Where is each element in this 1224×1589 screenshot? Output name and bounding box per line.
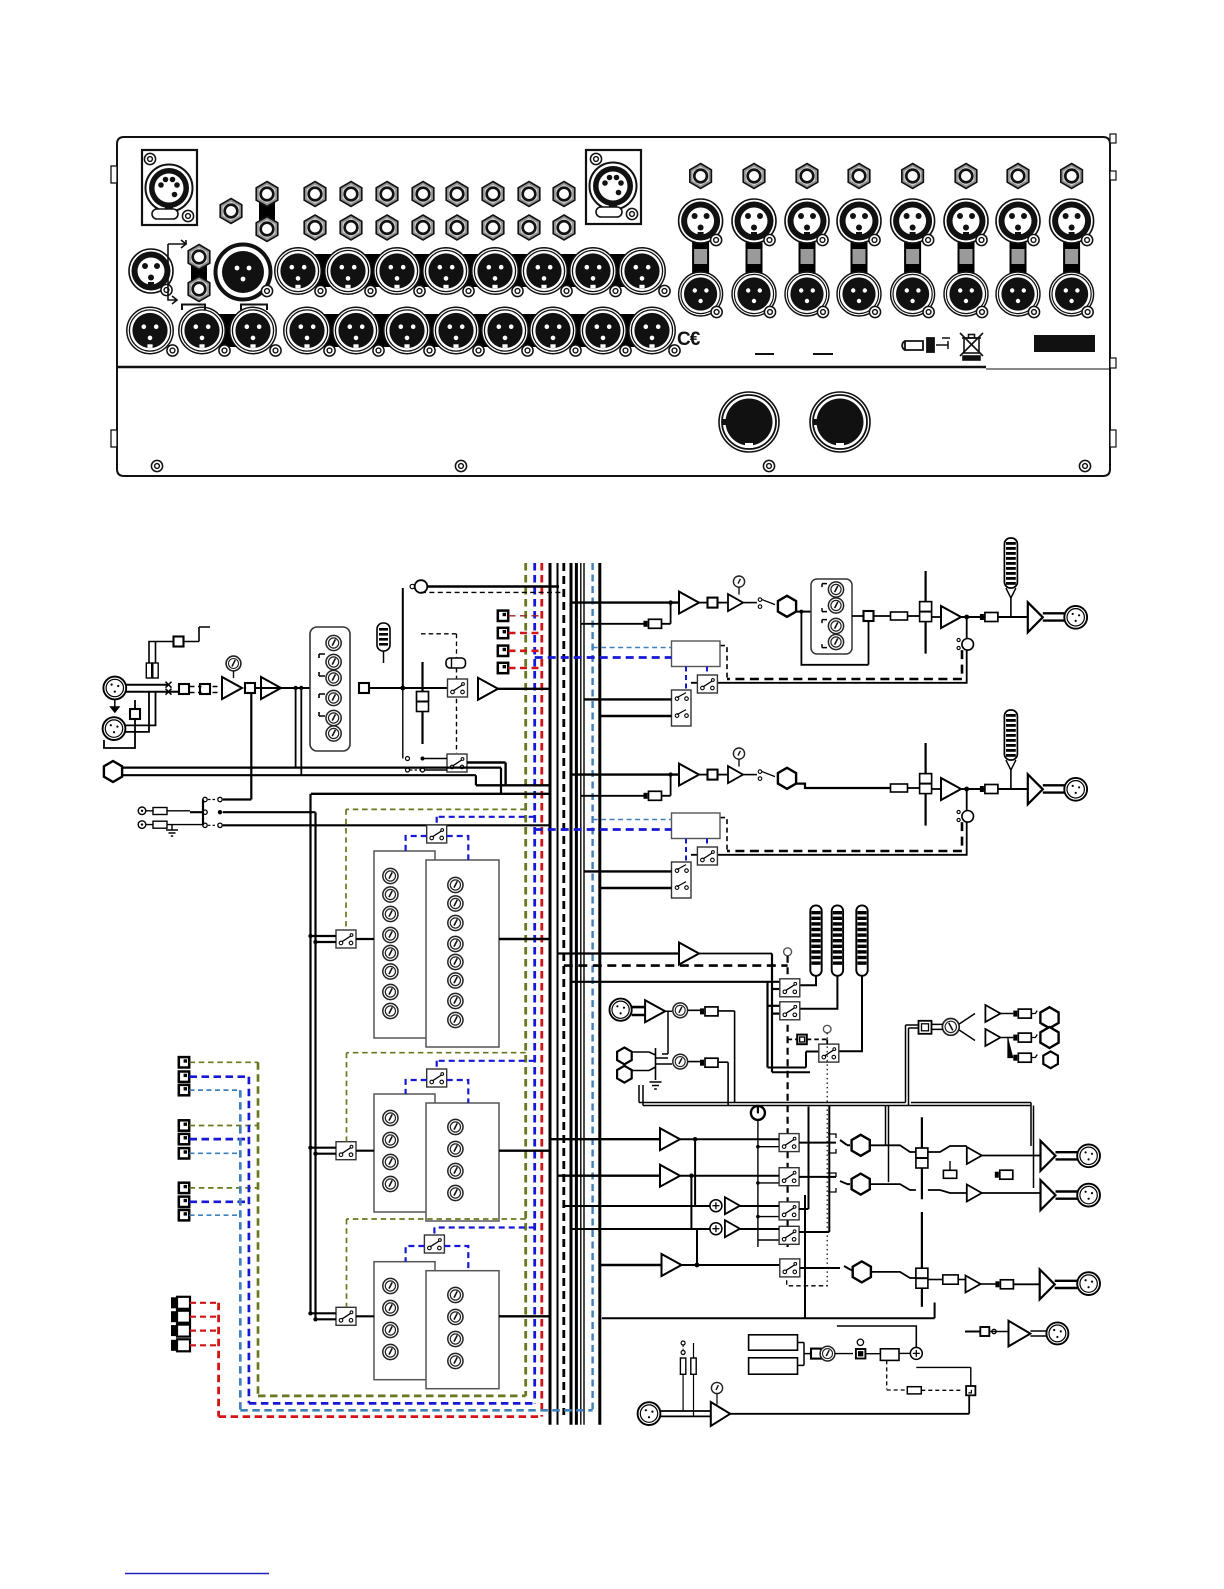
jack hex col2 top (340, 182, 362, 207)
mono out wire (682, 1229, 780, 1267)
aux1 blue drop B (706, 667, 708, 676)
channel amp 2 (261, 677, 281, 699)
loop steel bottom (240, 1409, 592, 1412)
panel right ear tab bottom (1110, 430, 1116, 447)
phones hex A (1040, 1007, 1058, 1028)
stereo ch A left knob 8 (383, 1003, 398, 1018)
XLR male mid 2 (325, 248, 376, 297)
stereo ch C left block (374, 1262, 435, 1380)
channel 16 XLR male (1050, 272, 1094, 318)
wire to bus (498, 688, 550, 690)
bal cap (943, 1161, 956, 1178)
phones cap C (1013, 1053, 1031, 1062)
aux2 level pot (733, 748, 744, 759)
aux pre circle (410, 580, 427, 593)
aux1 EQ shelf marks (822, 584, 827, 648)
lamp box left screw B (182, 210, 193, 221)
phones amp B (985, 1029, 1000, 1046)
tape in circle 1 (138, 807, 146, 815)
jack hex col7 top (518, 182, 540, 207)
stereo ch A right knob 1 (448, 877, 463, 892)
aux2 out wire (961, 788, 1028, 790)
loop blue bottom (249, 1402, 535, 1405)
aux2 balanced pair (1043, 785, 1065, 792)
fx jack 2 (171, 1311, 190, 1323)
aux send red dashed 4 (509, 667, 542, 670)
aux1 solo circle (957, 638, 974, 650)
aux1 insert hex (778, 596, 796, 617)
phones squiggles (1031, 1011, 1037, 1058)
stereo C olive branch (347, 1219, 526, 1307)
panel dash mark 1 (755, 353, 774, 355)
sub R feed (571, 1176, 710, 1229)
jack hex col6 top (482, 182, 504, 207)
main L pair (1056, 1152, 1078, 1159)
return olive vertical (257, 1062, 260, 1396)
channel 9 XLR male (679, 272, 723, 318)
aux2 mute rect (891, 784, 908, 792)
pan dashed vertical (421, 634, 457, 753)
meter switch3 loop (768, 1052, 819, 1073)
stereo ch A right knob 5 (448, 954, 463, 969)
jack hex col4 bottom (412, 215, 434, 240)
pfl dashdot vertical (787, 1033, 828, 1286)
loop red bottom (219, 1415, 542, 1418)
osc vertical join (916, 1367, 971, 1386)
phones jack square (919, 1021, 932, 1034)
peak LED capsule (377, 623, 390, 663)
meter vertical A (766, 982, 768, 1068)
lamp box left slot (152, 209, 178, 219)
aux2 solo solid wire (691, 789, 967, 855)
channel 13 hex jack (902, 164, 924, 189)
fx red dashed 1 (190, 1302, 219, 1304)
panel divider line (117, 366, 986, 368)
XLR male bottom 11 (629, 307, 680, 356)
osc sum circle (910, 1347, 922, 1359)
tape wire 2 (146, 825, 203, 830)
channel 9 hex jack (690, 164, 712, 189)
aux1 EQ knob 4 (828, 634, 843, 649)
aux1 balanced pair (1043, 613, 1065, 620)
main L wire (982, 1156, 1041, 1194)
2tk mix wires (633, 1048, 673, 1080)
aux1 EQ out wire (801, 612, 890, 665)
XLR male bottom 2 (179, 307, 230, 356)
tap junction dot (400, 686, 405, 691)
fader out R (928, 1190, 967, 1193)
aux pre wire solid (427, 585, 559, 588)
osc dashed right (921, 1389, 962, 1391)
main L XLR (1077, 1144, 1100, 1167)
stereo A blue feed (437, 817, 535, 825)
phones amp A (985, 1005, 1000, 1022)
jack hex col3 bottom (376, 215, 398, 240)
fader out L (928, 1146, 967, 1152)
EQ knob 2 (326, 654, 341, 669)
mono out amp (662, 1254, 682, 1276)
jack hex col5 bottom (446, 215, 468, 240)
lamp connector box left (142, 150, 197, 225)
stereo ch A right knob 4 (448, 936, 463, 951)
aux1 blue drop A (685, 667, 687, 691)
osc out wire (837, 1326, 916, 1347)
solo out wire (467, 763, 506, 786)
phantom wires up (149, 642, 174, 664)
meter mode square (797, 1035, 807, 1045)
direct contacts row3 (203, 823, 222, 827)
aux1 source switches (672, 690, 692, 726)
phones2 amp (1009, 1321, 1031, 1347)
stereo ch A right knob 6 (448, 973, 463, 988)
gain pot (226, 656, 241, 678)
phantom bracket marks (168, 240, 186, 304)
XLR male mid 1 (275, 248, 326, 297)
mix switch 3 (779, 1202, 799, 1220)
stereo ch A right knob 8 (448, 1012, 463, 1027)
tape resistor 2 (153, 821, 167, 828)
bus olive dashed vertical (524, 563, 527, 1396)
aux2 blue drop B (706, 839, 708, 848)
stereo ch B left knob 1 (383, 1110, 398, 1125)
stereo ch A right knob 7 (448, 993, 463, 1008)
lamp box right slot (596, 207, 622, 217)
lamp box right screw A (590, 153, 601, 164)
XLR male mid 8 (619, 248, 670, 297)
mix switch 1 (779, 1134, 799, 1152)
hex pair column band A (259, 200, 275, 225)
aux1 EQ knob 2 (828, 598, 843, 613)
aux1 EQ knob 3 (828, 618, 843, 633)
tape in circle 2 (138, 821, 146, 829)
mix L feed (550, 1138, 660, 1140)
aux2 long wire (797, 784, 891, 788)
hex pair A top (256, 182, 278, 207)
phones pot wires (932, 1014, 976, 1041)
2tk XLR input (610, 999, 632, 1021)
osc rect (880, 1349, 899, 1361)
fx red dashed 4 (190, 1344, 219, 1346)
EQ knob 3 (326, 670, 341, 685)
jack hex col5 top (446, 182, 468, 207)
phones hex B (1040, 1027, 1058, 1048)
line input wires (104, 692, 156, 748)
channel 11 XLR male (785, 272, 829, 318)
sub R amp (725, 1220, 740, 1237)
aux1 wire to fader (908, 615, 920, 617)
panel divider line right (986, 368, 1110, 370)
stereo ch A left knob 1 (383, 868, 398, 883)
stereo ch A left knob 6 (383, 964, 398, 979)
power DIN connector 1 (719, 392, 779, 452)
stereo ch B input junctions (308, 1146, 312, 1150)
meter amp out (699, 953, 772, 955)
aux2 mode switch (697, 847, 717, 865)
panel dash mark 2 (813, 353, 833, 355)
bus black line 5 (580, 563, 582, 1425)
channel 9 XLR female (679, 199, 723, 246)
aux pre wire dashed (421, 591, 564, 593)
stereo ch C input switch (336, 1307, 356, 1325)
mono out XLR (1077, 1272, 1100, 1295)
aux1 cap junction (668, 600, 672, 604)
stereo ch A left knob 4 (383, 927, 398, 942)
talkback pot (711, 1382, 722, 1393)
return jack group2 A (179, 1120, 189, 1130)
jack hex col3 top (376, 182, 398, 207)
aux1 junction dot (964, 615, 969, 620)
jack hex col7 bottom (518, 215, 540, 240)
return jack group3 C (179, 1210, 189, 1220)
channel insert hex (104, 761, 122, 782)
phones jack hex single (220, 199, 242, 224)
meter stub 3 (772, 1012, 780, 1014)
phantom hook wire (184, 627, 211, 642)
panel screw br (1079, 460, 1090, 471)
bus black dashed line (562, 563, 565, 1415)
main R pair (1056, 1192, 1078, 1199)
aux1 amp 1 (679, 592, 699, 614)
wire EQ to fader (369, 687, 448, 689)
2tk cap 2 (700, 1058, 718, 1067)
2tk amp tap (662, 1011, 672, 1054)
osc pot (820, 1346, 835, 1361)
insert return wire B (476, 784, 550, 786)
aux1 master block (672, 641, 721, 667)
stereo ch C output wire (499, 1315, 550, 1317)
bus black line 6 (583, 563, 585, 1425)
meter switch 2 (780, 1002, 800, 1020)
stereo ch A input junctions (308, 934, 312, 938)
bus blue dashed vertical (533, 563, 536, 1403)
stereo ch C right knob 4 (448, 1353, 463, 1368)
mix switch 4 (779, 1226, 799, 1244)
meter dashed feed (564, 964, 788, 967)
pad square node (130, 709, 140, 719)
channel 14 XLR female (944, 199, 988, 246)
lamp box right screw B (626, 208, 637, 219)
aux send jack square 2 (498, 628, 508, 638)
XLR male mid 4 (423, 248, 474, 297)
osc small circle (857, 1339, 863, 1345)
phantom square (174, 637, 184, 647)
channel 11 link bar (799, 240, 816, 302)
bracket over bottom 3 (241, 305, 267, 311)
XLR male bottom 8 (482, 307, 533, 356)
phones2 square (980, 1327, 996, 1336)
stereo ch A left block (374, 851, 435, 1038)
stereo ch C input wires (311, 1313, 337, 1319)
mono fader (916, 1248, 928, 1307)
XLR male bottom 10 (580, 307, 631, 356)
channel 10 link bar (746, 240, 763, 302)
channel 13 XLR male (891, 272, 935, 318)
jack hex col2 bottom (340, 215, 362, 240)
stereo ch B left knob 4 (383, 1176, 398, 1191)
insert feed vertical B (314, 812, 316, 1321)
return jack group1 C (179, 1085, 189, 1095)
meter bar stem 1 (797, 976, 816, 986)
insert wires (122, 768, 501, 794)
stereo ch C input junctions (308, 1311, 312, 1315)
solo contacts (403, 688, 447, 772)
aux1 mute rect (891, 612, 908, 620)
aux2 amp 2 (728, 766, 743, 783)
aux send jack square 3 (498, 646, 508, 656)
stereo ch C right knob 2 (448, 1309, 463, 1324)
stereo ch A left knob 7 (383, 984, 398, 999)
bus black line 3 (570, 563, 573, 1425)
mix L wire (680, 1106, 829, 1233)
insert feed vertical A (309, 794, 311, 1315)
stereo ch B left knob 3 (383, 1154, 398, 1169)
return jack group1 A (179, 1057, 189, 1067)
aux1 fader (920, 571, 932, 654)
input resistor left (146, 663, 151, 678)
bracket over bottom 2 (182, 305, 205, 311)
pfl circle (823, 1025, 831, 1033)
meter mode dashed (788, 1039, 828, 1044)
XLR male mid 6 (521, 248, 572, 297)
aux1 level pot (733, 576, 744, 587)
bus steelblue dashed vertical (591, 563, 593, 1410)
aux2 bus feed wire (571, 773, 679, 775)
mono switch (780, 1259, 800, 1277)
channel 12 XLR female (837, 199, 881, 246)
aux send jack square 1 (498, 611, 508, 621)
mute switch (448, 679, 468, 697)
2tk cap (700, 1007, 718, 1016)
jack hex col1 top (304, 182, 326, 207)
XLR male bottom 5 (333, 307, 384, 356)
stereo C blue switch (424, 1235, 444, 1253)
EQ knob 4 (326, 690, 341, 705)
lamp connector box right (586, 150, 641, 224)
jack hex col6 bottom (482, 215, 504, 240)
stereo B blue drops (406, 1080, 469, 1103)
pan pot capsule (446, 658, 466, 668)
aux1 meter cap (980, 613, 998, 622)
stereo ch C left knob 4 (383, 1344, 398, 1359)
phones cap B (1013, 1033, 1031, 1042)
EQ shelf marks (319, 654, 325, 716)
aux2 cap junction (668, 772, 672, 776)
panel right ear tab top (1110, 134, 1116, 143)
osc notch square (966, 1386, 975, 1395)
channel 11 XLR female (785, 199, 829, 246)
osc dashed down (887, 1360, 907, 1390)
fx jack 1 (171, 1297, 190, 1309)
svg-text:C€: C€ (677, 329, 701, 350)
mono amp 2 (966, 1276, 981, 1293)
channel 15 XLR female (996, 199, 1040, 246)
XLR female main left (129, 249, 173, 296)
meter dashed vertical (786, 956, 788, 1247)
stereo ch B right knob 4 (448, 1185, 463, 1200)
mic XLR input 1 (103, 677, 126, 700)
panel right ear tab mid (1110, 171, 1116, 180)
meter stub 1 (772, 988, 780, 990)
aux2 meter cap (980, 785, 998, 794)
aux1 bargraph (1004, 538, 1017, 617)
stereo ch C right knob 1 (448, 1287, 463, 1302)
meter stub 2 (768, 1005, 780, 1007)
aux2 blue dashed in (535, 828, 672, 831)
aux2 block dashed corner (720, 818, 727, 851)
lamp XLR 5pin left (146, 165, 193, 212)
aux2 source switches (672, 862, 692, 898)
meter bargraph 1 (810, 905, 821, 975)
stereo ch A switch to block wire (356, 938, 374, 940)
phones cap A (1013, 1009, 1031, 1018)
aux2 solo dashed wire (727, 822, 962, 851)
pad switch square 2 (200, 684, 210, 694)
aux1 cap (644, 619, 662, 628)
stereo ch A output wire (499, 938, 550, 940)
return blue dashed g3 (190, 1200, 249, 1203)
sub L amp (725, 1197, 740, 1214)
XLR male bottom 9 (530, 307, 581, 356)
mix L insert hex (852, 1135, 870, 1156)
serial label black rect (1034, 335, 1095, 352)
stereo ch B right block (426, 1103, 499, 1221)
stereo A olive branch (346, 809, 526, 930)
channel 16 link bar (1063, 240, 1080, 302)
channel 16 hex jack (1061, 164, 1083, 189)
phones pot (942, 1019, 959, 1036)
channel 9 link bar (692, 240, 709, 302)
osc square 2 (856, 1349, 866, 1359)
channel 14 XLR male (944, 272, 988, 318)
talkback resistor (680, 1358, 696, 1416)
red vertical (217, 1303, 220, 1417)
preamp triangle (222, 677, 242, 699)
mono to hex (800, 1266, 852, 1270)
tape resistor 1 (153, 808, 167, 815)
jack hex col8 top (553, 182, 575, 207)
lamp XLR 5pin right (590, 163, 637, 210)
stereo B olive branch (347, 1053, 526, 1142)
panel screw bc (763, 460, 774, 471)
aux2 solo circle (957, 810, 974, 822)
mix R feed (558, 1174, 661, 1176)
aux1 output XLR (1064, 606, 1087, 629)
XLR male mid 3 (374, 248, 425, 297)
stereo ch A left knob 5 (383, 945, 398, 960)
talkback amp (711, 1402, 730, 1426)
line XLR input 2 (103, 717, 126, 740)
meter select circle (784, 948, 792, 956)
stereo ch B switch to block wire (356, 1150, 374, 1152)
power switch symbol (751, 1106, 779, 1247)
mix switch 2 (779, 1168, 799, 1186)
aux1 cap feed wire (581, 603, 671, 624)
bus black line 4 (575, 563, 578, 1425)
stereo ch B input switch (336, 1142, 356, 1160)
bus red dashed vertical (540, 563, 543, 1417)
channel 15 hex jack (1007, 164, 1029, 189)
osc square (811, 1349, 821, 1359)
main R XLR (1077, 1184, 1100, 1207)
return blue dashed g2 (190, 1138, 249, 1141)
return jack group2 B (179, 1134, 189, 1144)
stereo ch A right knob 3 (448, 915, 463, 930)
ctrl room double wire (639, 1025, 1034, 1188)
aux1 feed wire A (584, 698, 672, 700)
main R out amp (1041, 1180, 1056, 1210)
channel 10 XLR female (732, 199, 776, 246)
preamp out square (245, 683, 255, 693)
